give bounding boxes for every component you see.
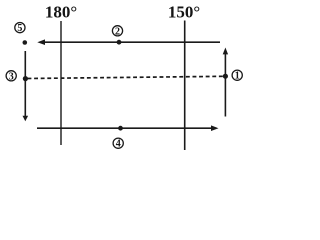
svg-text:4: 4 [116,139,121,150]
arrowhead down on left line [23,116,29,121]
wire bottom horizontal line with right arrow [37,127,212,129]
circled number 1 [232,70,242,82]
circled number 5 [15,23,25,35]
svg-text:150°: 150° [168,3,200,22]
svg-text:2: 2 [115,26,120,37]
node dot on bottom line [118,126,123,131]
meridian line 150 [184,21,186,151]
dashed latitude line [28,76,226,78]
wire top horizontal line with left arrow [44,41,220,43]
node dot junction left line and dashed line [23,76,28,81]
arrowhead up on right line [223,48,228,55]
arrowhead left on top line [37,39,45,45]
meridian line 180 [60,21,62,145]
node dot on top line [117,40,122,45]
circled number 3 [6,71,16,83]
circled number 4 [113,138,123,150]
arrowhead right on bottom line [211,125,219,131]
node dot junction right line and dashed line [223,74,228,79]
svg-text:5: 5 [17,23,22,34]
svg-text:3: 3 [9,71,14,82]
wire left vertical line with down arrow [24,51,26,117]
svg-text:180°: 180° [45,3,77,22]
svg-text:1: 1 [235,71,240,82]
circled number 2 [112,26,122,38]
node dot top of left line [23,40,28,45]
wire right vertical line with up arrow [224,53,226,117]
